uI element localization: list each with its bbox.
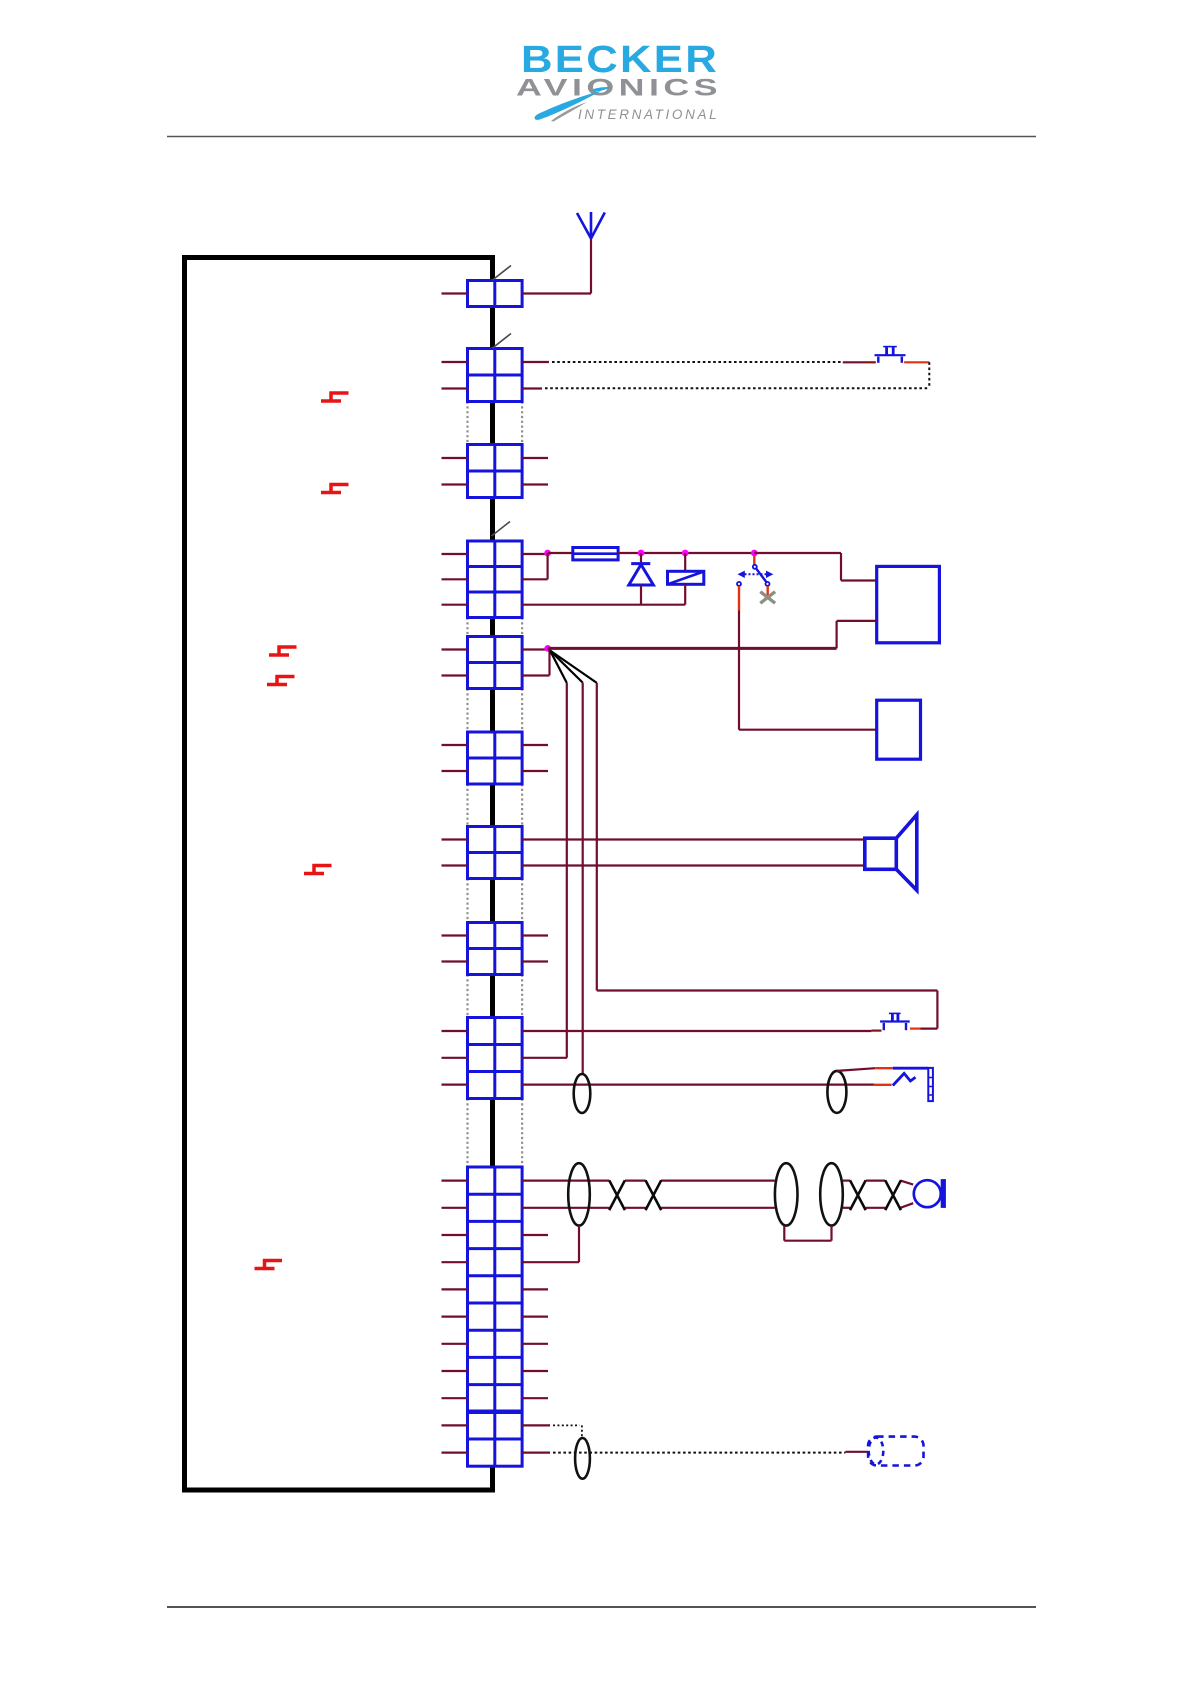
ptt wire red seg — [871, 1029, 881, 1031]
connector gap dotted — [468, 879, 523, 923]
mic hi red seg — [874, 1084, 892, 1086]
node PWR — [544, 550, 551, 557]
connector P10 (audio) — [468, 1167, 523, 1466]
S2 contact wire — [738, 586, 740, 611]
signal mark — [304, 864, 332, 874]
master switch S2 stem — [753, 555, 755, 565]
connector P5 — [468, 637, 523, 689]
transceiver unit outline — [185, 258, 493, 1491]
connector P3 — [468, 445, 523, 498]
bus sense wire — [837, 621, 877, 649]
node K1 — [682, 550, 689, 557]
not-connected X — [760, 592, 775, 604]
option dotted — [553, 1425, 582, 1438]
mic jack J1 — [928, 1068, 933, 1101]
internal pin stubs — [442, 294, 468, 1453]
svg-text:INTERNATIONAL: INTERNATIONAL — [578, 107, 720, 122]
mic cable shield — [827, 1071, 846, 1113]
node S2 — [751, 550, 758, 557]
ground return wire — [522, 604, 685, 606]
push button S1 — [875, 347, 906, 363]
mic shield wire — [837, 1068, 875, 1071]
P4 pin wire — [522, 578, 548, 580]
microphone M1 — [893, 1073, 916, 1085]
relay K1 wire — [684, 553, 686, 571]
mic shield red seg — [875, 1067, 893, 1069]
P2 keying slash — [493, 334, 512, 349]
P5 pin jumper — [522, 648, 549, 675]
connector gap dotted — [468, 1099, 523, 1168]
connector P2 — [468, 349, 523, 402]
dotted control line — [552, 361, 843, 363]
option dotted line — [553, 1452, 845, 1454]
master switch S2 — [737, 565, 773, 586]
svg-text:AVIONICS: AVIONICS — [516, 75, 722, 102]
mic jack sleeve wire — [893, 1067, 928, 1070]
unused pin stubs — [522, 458, 548, 1398]
twist crossover — [885, 1180, 901, 1210]
diode V1 wire — [640, 553, 642, 564]
twist crossover — [609, 1180, 625, 1210]
phone cable shield — [775, 1163, 798, 1225]
control head box B2 — [877, 700, 921, 759]
harness fan lines — [550, 651, 597, 683]
shield drain wire — [522, 1226, 579, 1263]
connector P7 (speaker) — [468, 827, 523, 879]
connector gap dotted — [468, 784, 523, 827]
speaker wire lo — [522, 864, 865, 866]
harness wire 1 — [566, 683, 568, 1058]
connector P6 — [468, 732, 523, 784]
node D1 — [638, 550, 645, 557]
twist crossover — [850, 1180, 866, 1210]
avionics bus box B1 — [877, 566, 940, 642]
harness wire 2 — [582, 683, 584, 1075]
supply wire to avionics bus — [754, 553, 876, 581]
option cable shield — [575, 1438, 590, 1479]
connector P1 (antenna) — [468, 281, 523, 307]
node N5 — [544, 645, 551, 652]
dotted return line — [545, 362, 929, 388]
connector gap dotted — [468, 975, 523, 1018]
mic hi wire — [522, 1083, 874, 1085]
signal mark — [267, 675, 295, 685]
logo swoosh tip in O — [593, 87, 612, 92]
connector gap dotted — [468, 402, 523, 445]
ptt wire — [522, 1030, 871, 1032]
diode V1 — [629, 564, 654, 585]
ptt button S3 — [880, 1013, 910, 1030]
footer rule — [167, 1606, 1036, 1608]
logo swoosh — [535, 91, 601, 120]
twist crossover — [646, 1180, 662, 1210]
antenna A1 — [577, 212, 605, 239]
S2 open contact stub — [767, 586, 769, 596]
ptt wire from S3 — [910, 1027, 921, 1029]
phone cable shield — [568, 1163, 590, 1225]
main bus wire — [548, 647, 837, 650]
P5 pin wire — [522, 648, 548, 650]
connector P4 (power) — [468, 541, 523, 618]
relay K1 wire — [684, 584, 686, 604]
harness wire 3 — [597, 683, 938, 991]
P4 keying slash — [492, 522, 511, 537]
signal mark — [321, 392, 349, 402]
phone wire B — [522, 1203, 913, 1208]
P2 pin stub — [522, 387, 542, 389]
mic lo wire — [522, 1057, 567, 1059]
Becker Avionics logo — [516, 39, 722, 122]
antenna feed wire — [522, 239, 591, 294]
P1 keying slash — [493, 266, 512, 281]
connector P8 — [468, 923, 523, 975]
wire to switch S1 — [843, 361, 876, 363]
diode V1 wire — [640, 585, 642, 605]
option stub — [522, 1451, 550, 1453]
signal mark — [255, 1259, 283, 1269]
mic cable shield — [574, 1074, 591, 1113]
shield jumper — [784, 1226, 831, 1241]
phone wire A — [522, 1181, 913, 1185]
option wire — [845, 1451, 868, 1453]
headphone H1 — [914, 1179, 946, 1208]
wire from S1 — [904, 361, 929, 363]
pin jumper — [546, 553, 548, 579]
connector P9 (ptt/mic) — [468, 1018, 523, 1099]
speaker LS1 — [865, 815, 917, 891]
signal mark — [321, 483, 349, 493]
supply bus wire — [618, 552, 754, 554]
relay K1 coil — [668, 571, 704, 584]
option stub — [522, 1424, 550, 1426]
header rule — [167, 136, 1036, 138]
signal mark — [269, 646, 297, 656]
phone cable shield — [820, 1163, 843, 1225]
fuse F1 — [573, 548, 618, 560]
optional device (dashed) — [868, 1437, 923, 1466]
supply bus wire — [548, 552, 573, 554]
connector gap dotted — [468, 689, 523, 733]
connector gap dotted — [468, 618, 523, 637]
speaker wire hi — [522, 838, 865, 840]
P4 pin wire — [522, 553, 548, 555]
ptt return wire — [921, 991, 938, 1029]
wire to control head — [739, 611, 877, 730]
P2 pin stub — [522, 361, 549, 363]
